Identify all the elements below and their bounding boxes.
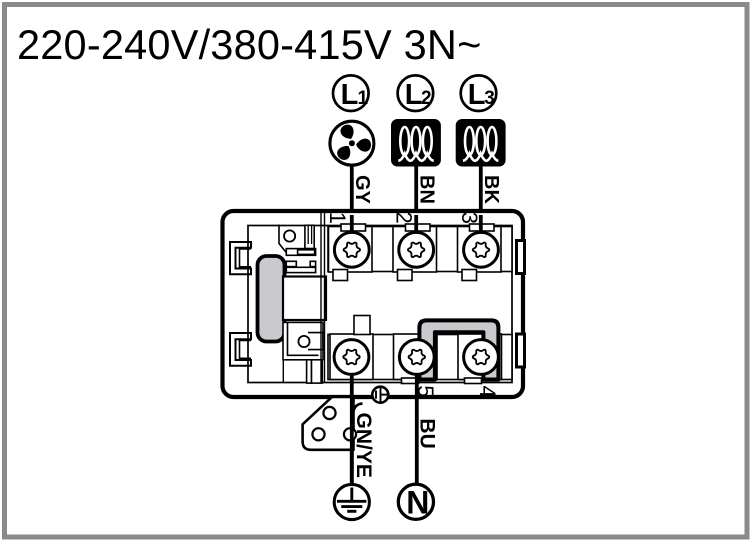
svg-text:N: N xyxy=(406,484,429,520)
wire heater BN to terminal 2 xyxy=(414,165,418,252)
node L2 xyxy=(398,75,434,111)
terminal 6 pad xyxy=(330,316,373,380)
heating element BN phase xyxy=(391,119,441,167)
screw terminal 6 xyxy=(334,340,369,375)
wire 1 over pad tab xyxy=(350,215,354,250)
wire 2 over pad tab xyxy=(414,215,418,250)
node N xyxy=(398,484,433,520)
svg-text:2: 2 xyxy=(391,212,416,224)
internal mechanism upper left xyxy=(279,225,286,253)
left clip channel upper xyxy=(230,242,251,274)
partition wall lines xyxy=(320,213,322,383)
svg-text:220-240V/380-415V 3N~: 220-240V/380-415V 3N~ xyxy=(17,21,482,68)
svg-text:L: L xyxy=(468,79,486,111)
fan motor symbol xyxy=(330,121,374,165)
internal mechanism middle box xyxy=(283,277,326,321)
jumper bridge terminals 5-4 xyxy=(419,320,498,379)
left clip channel lower xyxy=(230,333,251,366)
terminal rail top xyxy=(328,227,512,272)
heating element BK phase xyxy=(456,119,506,167)
svg-text:1: 1 xyxy=(325,212,350,224)
wire heater BK to terminal 3 xyxy=(479,165,483,252)
svg-text:5: 5 xyxy=(413,385,438,397)
ground symbol xyxy=(334,484,369,519)
screw terminal 1 xyxy=(334,232,369,267)
node L1 xyxy=(333,75,369,111)
wire 3 over pad tab xyxy=(479,215,483,250)
terminal 1 pad xyxy=(329,224,373,281)
wire fan to terminal 1 xyxy=(350,165,354,252)
cord clamp lever (gray) xyxy=(258,256,285,342)
svg-text:2: 2 xyxy=(421,88,432,109)
svg-text:3: 3 xyxy=(457,212,482,224)
screw terminal 5 xyxy=(399,340,434,375)
earth screw on housing xyxy=(372,387,389,403)
svg-text:1: 1 xyxy=(358,88,369,109)
terminal block inner housing xyxy=(248,226,512,383)
terminal 3 pad xyxy=(458,224,502,281)
screw terminal 4 xyxy=(464,340,499,375)
svg-text:L: L xyxy=(405,79,423,111)
svg-text:3: 3 xyxy=(484,88,495,109)
wire over clamp xyxy=(350,395,354,483)
earth wire hook arc xyxy=(353,404,363,414)
right mounting tabs xyxy=(517,241,525,368)
node L3 xyxy=(461,75,497,111)
terminal 5 pad xyxy=(394,334,438,384)
svg-text:BK: BK xyxy=(480,175,502,204)
terminal rail bottom xyxy=(328,335,512,380)
screw terminal 3 xyxy=(464,232,499,267)
screw terminal 2 xyxy=(399,232,434,267)
terminal 4 pad xyxy=(458,334,502,384)
terminal 2 pad xyxy=(393,224,437,281)
svg-text:GN/YE: GN/YE xyxy=(352,413,375,478)
svg-text:GY: GY xyxy=(351,175,373,205)
wire terminal 6 to earth xyxy=(350,357,354,483)
cable clamp plate xyxy=(303,397,354,450)
internal mechanism lower left xyxy=(283,322,323,383)
svg-text:BU: BU xyxy=(415,418,438,448)
svg-text:L: L xyxy=(341,79,359,111)
terminal block outer housing xyxy=(223,211,524,397)
svg-text:BN: BN xyxy=(416,175,438,204)
svg-text:4: 4 xyxy=(475,386,500,398)
wire terminal 5 to N xyxy=(415,357,419,483)
